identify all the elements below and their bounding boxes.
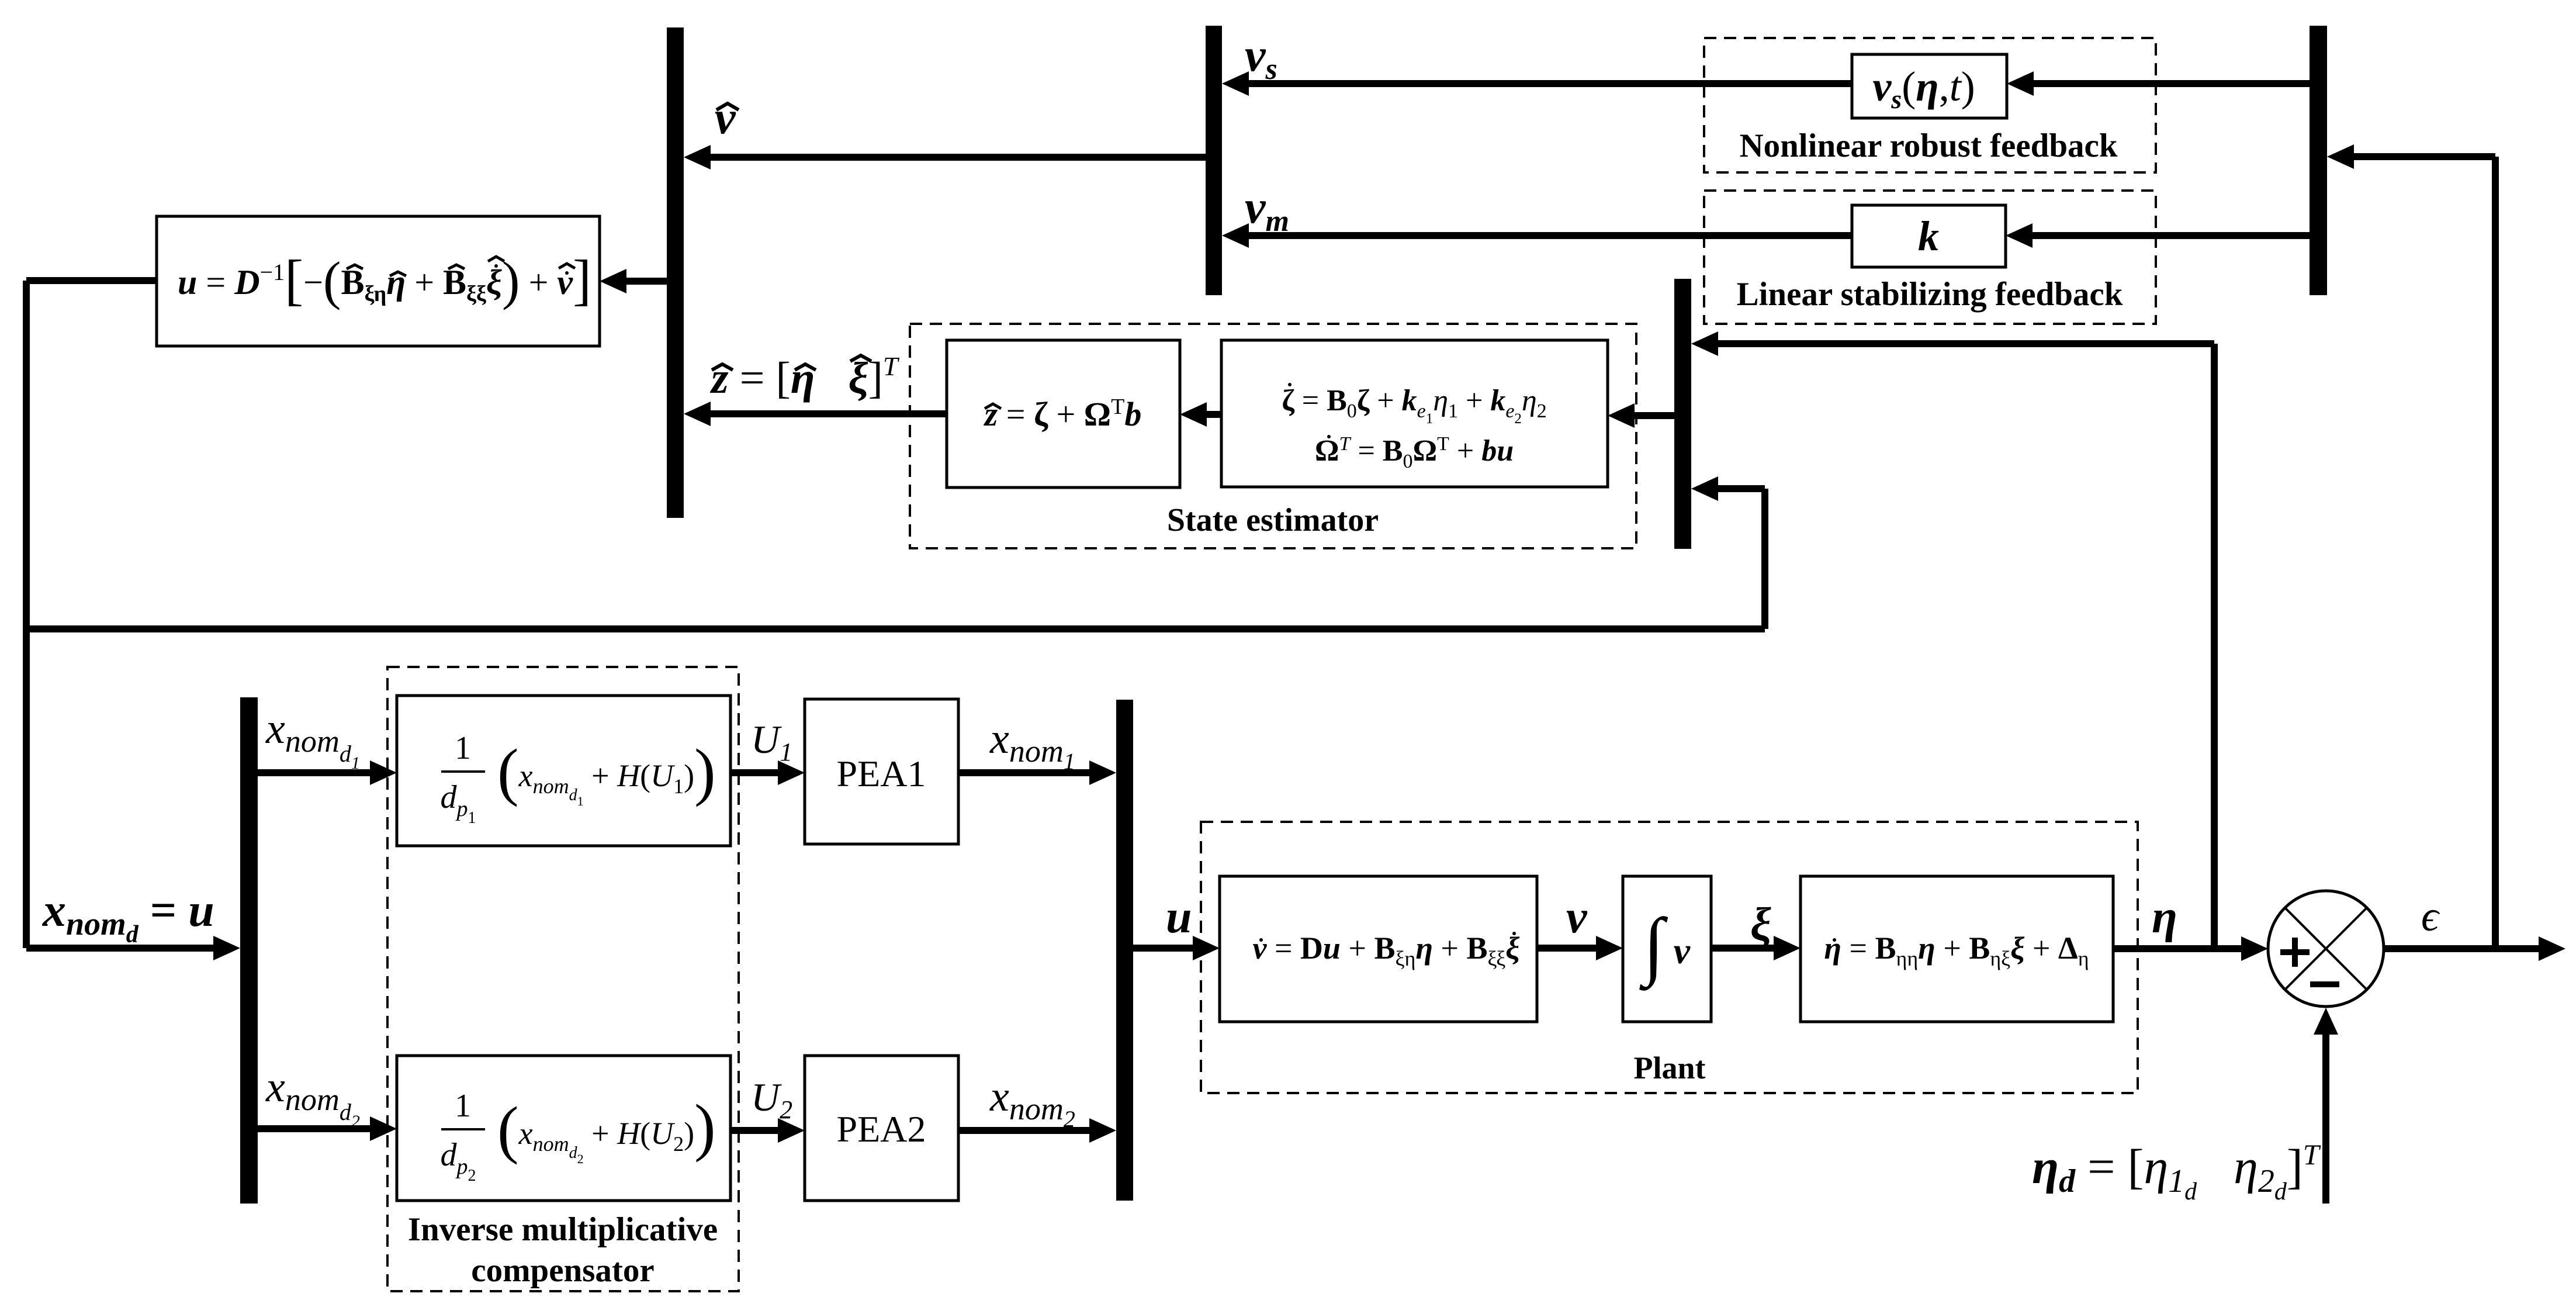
dashed group: State estimator: [910, 324, 1636, 548]
block: plant v-dot dynamics: [1220, 876, 1537, 1022]
minus sign of summing junction: [2310, 981, 2339, 987]
formula: compensator 1: [441, 730, 716, 827]
svg-text:State estimator: State estimator: [1167, 502, 1379, 538]
label: x_nom_d2: [265, 1063, 360, 1131]
svg-text:ξ: ξ: [1750, 899, 1771, 950]
svg-text:xnom2: xnom2: [989, 1073, 1075, 1132]
label: v (plant internal): [1566, 891, 1588, 943]
wire x_nom_1: PEA1 to bus B6: [958, 760, 1116, 785]
svg-text:xnomd2: xnomd2: [265, 1063, 360, 1131]
label: u (plant input): [1166, 891, 1192, 943]
label: Plant: [1633, 1050, 1705, 1085]
bus bar B1 (v-hat / z-hat collection bus): [667, 27, 684, 518]
formula: plant eta-dot dynamics: [1824, 931, 2089, 970]
wire u: bus B6 to plant: [1133, 936, 1220, 960]
label: xi: [1750, 899, 1771, 950]
svg-text:v: v: [715, 92, 736, 144]
dashed group: Nonlinear robust feedback: [1704, 38, 2156, 172]
svg-text:v: v: [1566, 891, 1588, 943]
dashed group: Inverse multiplicative compensator: [387, 667, 739, 1291]
svg-text:Inverse multiplicative: Inverse multiplicative: [408, 1211, 718, 1248]
block: k gain: [1852, 205, 2006, 267]
formula: integrator: [1639, 903, 1691, 991]
formula: control law: [178, 248, 591, 311]
label: v_m: [1245, 182, 1289, 238]
label: v-hat: [715, 92, 736, 144]
svg-text:xnomd1: xnomd1: [265, 705, 360, 773]
svg-text:η: η: [2152, 891, 2177, 943]
formula: k: [1918, 213, 1939, 260]
wire x_nom_2: PEA2 to bus B6: [958, 1118, 1116, 1143]
svg-text:U1: U1: [751, 717, 792, 766]
block: PEA1: [805, 699, 958, 844]
label: x_nom_d = u: [42, 885, 214, 948]
block: plant eta-dot dynamics: [1801, 876, 2113, 1022]
wire x_nom_d = u into bus B5: [26, 936, 240, 960]
wire from bus B1 into control-law block: [600, 269, 667, 293]
svg-text:1: 1: [455, 1088, 471, 1124]
bus bar B3 (estimator input bus): [1674, 279, 1691, 549]
label: eta_d = [eta_1d eta_2d]^T: [2032, 1138, 2321, 1205]
svg-text:vm: vm: [1245, 182, 1289, 238]
block: integrator: [1623, 876, 1711, 1022]
formula: plant v-dot dynamics: [1252, 931, 1519, 970]
svg-text:PEA1: PEA1: [837, 753, 926, 794]
wire v-hat: bus B2 to bus B1: [684, 145, 1206, 170]
formula: z-hat = zeta + Omega^T b: [984, 395, 1142, 433]
label: PEA1: [837, 753, 926, 794]
wire v: plant to integrator: [1537, 936, 1623, 960]
svg-text:xnom1: xnom1: [989, 715, 1075, 774]
formula: vs(eta,t): [1872, 63, 1975, 114]
wire x_nom_d2: bus B5 to compensator 2: [258, 1116, 397, 1141]
label: x_nom_2: [989, 1073, 1075, 1132]
wire eta: plant output to summing junction: [2113, 936, 2268, 961]
label: epsilon: [2421, 893, 2440, 940]
wire eta feedback to bus B3: [1691, 331, 2218, 949]
label: U_1: [751, 717, 792, 766]
svg-text:Plant: Plant: [1633, 1050, 1705, 1085]
wire bus B3 to estimator dynamics: [1608, 403, 1674, 428]
label: State estimator: [1167, 502, 1379, 538]
wire u feedback branch to bus B3: [26, 476, 1768, 632]
bus bar B2 (v summing bus): [1206, 26, 1222, 295]
svg-text:η = Bηηη + Bηξξ + Δη: η = Bηηη + Bηξξ + Δη: [1824, 931, 2089, 970]
wire vs: bus B4 to vs block to bus B2: [1222, 71, 2310, 96]
label: U_2: [751, 1075, 792, 1124]
block: inverse compensator channel 1: [397, 696, 730, 846]
wire epsilon: summing junction output: [2384, 936, 2565, 961]
svg-text:Linear stabilizing feedback: Linear stabilizing feedback: [1737, 276, 2123, 313]
label: PEA2: [837, 1108, 926, 1150]
wire between estimator blocks: [1180, 402, 1221, 427]
block: z-hat = zeta + Omega^T b: [947, 340, 1180, 487]
label: z-hat = [eta-hat xi-hat]^T: [709, 351, 900, 403]
hat and dot accents over math symbols: [347, 103, 1836, 942]
label: eta: [2152, 891, 2177, 943]
svg-text:U2: U2: [751, 1075, 792, 1124]
label: Nonlinear robust feedback: [1739, 127, 2117, 164]
wire vm: bus B4 to k block to bus B2: [1222, 223, 2310, 248]
wire xi: integrator to eta-dynamics: [1711, 936, 1801, 960]
svg-text:k: k: [1918, 213, 1939, 260]
svg-text:z = [η ξ]T: z = [η ξ]T: [709, 351, 900, 403]
bus bar B6 (u collection bus): [1116, 700, 1133, 1201]
dashed group: Plant: [1201, 822, 2138, 1093]
block: control law u = D^-1[...]: [157, 216, 600, 346]
formula: estimator dynamics line 1: [1282, 384, 1546, 427]
label: x_nom_d1: [265, 705, 360, 773]
formula: compensator 2: [441, 1088, 716, 1185]
wire U1: compensator 1 to PEA1: [730, 760, 805, 785]
wire eta_d input up into summing junction: [2314, 1008, 2338, 1204]
svg-text:vs: vs: [1245, 30, 1277, 86]
block: vs(eta,t): [1852, 54, 2007, 118]
wire epsilon feedback up to bus B4: [2327, 144, 2499, 949]
block: PEA2: [805, 1056, 958, 1201]
label: v_s: [1245, 30, 1277, 86]
plus sign of summing junction: [2280, 938, 2310, 967]
wire u: control-law output down the left side: [23, 277, 157, 948]
svg-text:vs(η,t): vs(η,t): [1872, 63, 1975, 114]
bus bar B5 (x_nom_d distribution bus): [240, 697, 258, 1204]
svg-text:PEA2: PEA2: [837, 1108, 926, 1150]
wire x_nom_d1: bus B5 to compensator 1: [258, 760, 397, 785]
summing junction circle with cross: [2268, 891, 2384, 1007]
svg-text:compensator: compensator: [471, 1252, 654, 1289]
dashed group: Linear stabilizing feedback: [1704, 191, 2156, 324]
svg-text:u: u: [1166, 891, 1192, 943]
wire U2: compensator 2 to PEA2: [730, 1118, 805, 1143]
block: inverse compensator channel 2: [397, 1056, 730, 1201]
formula: estimator dynamics line 2: [1315, 433, 1514, 472]
wire z-hat: estimator to bus B1: [684, 402, 947, 426]
label: Inverse multiplicative compensator: [408, 1211, 718, 1289]
svg-text:Nonlinear robust feedback: Nonlinear robust feedback: [1739, 127, 2117, 164]
svg-text:v = Du + Bξηη + Bξξξ: v = Du + Bξηη + Bξξξ: [1252, 931, 1519, 970]
svg-text:1: 1: [455, 730, 471, 766]
bus bar B4 (feedback distribution bus): [2310, 26, 2327, 295]
svg-text:xnomd = u: xnomd = u: [42, 885, 214, 948]
label: x_nom_1: [989, 715, 1075, 774]
svg-text:ηd = [η1d η2d]T: ηd = [η1d η2d]T: [2032, 1138, 2321, 1205]
block: estimator dynamics: [1221, 340, 1608, 487]
svg-text:ϵ: ϵ: [2421, 893, 2440, 940]
label: Linear stabilizing feedback: [1737, 276, 2123, 313]
